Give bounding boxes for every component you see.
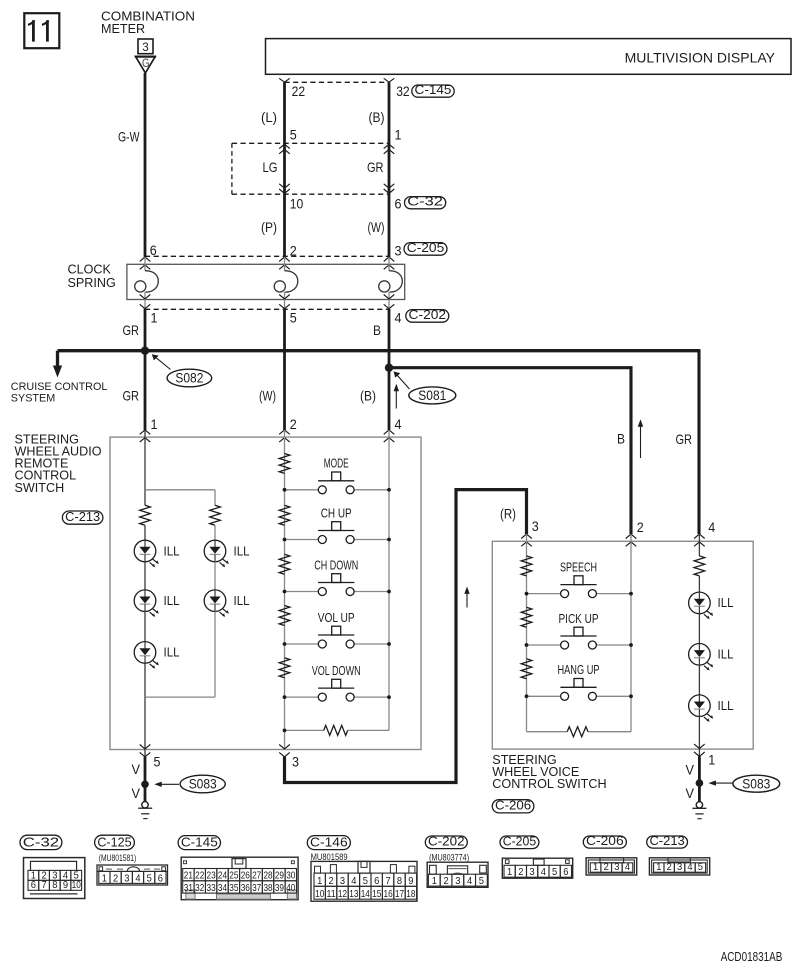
svg-text:4: 4 — [541, 867, 546, 878]
label GR upper — [367, 159, 384, 175]
wire stub out of clock spring 1 — [144, 292, 146, 309]
svg-text:11: 11 — [327, 889, 336, 900]
svg-text:LG: LG — [263, 159, 278, 175]
connector marks at LG GR bottom — [279, 184, 394, 194]
svg-text:1: 1 — [593, 862, 598, 873]
label (P) — [261, 219, 277, 235]
direction arrow wire (R) — [464, 587, 469, 608]
wire stub into clock spring 2 — [284, 257, 286, 271]
svg-text:ILL: ILL — [234, 543, 250, 558]
wire right LED column c — [214, 612, 216, 698]
svg-text:C-213: C-213 — [65, 509, 100, 524]
svg-text:C-125: C-125 — [97, 834, 131, 849]
svg-text:C-206: C-206 — [495, 798, 531, 813]
wire voice LED chain d — [698, 717, 700, 757]
svg-text:23: 23 — [207, 871, 216, 882]
label ILL right2 — [234, 593, 250, 608]
svg-text:ILL: ILL — [164, 645, 180, 660]
wire audio switch rail pin4 — [388, 430, 390, 730]
svg-text:26: 26 — [241, 871, 250, 882]
svg-text:METER: METER — [101, 22, 145, 36]
svg-text:CH UP: CH UP — [321, 506, 352, 520]
connector pinout C-146 — [311, 861, 417, 901]
label MODE — [324, 457, 349, 471]
bus wire S082 to cruise control and voice switch GR — [58, 349, 700, 534]
svg-text:6: 6 — [158, 873, 163, 884]
svg-text:33: 33 — [207, 883, 216, 894]
svg-text:32: 32 — [195, 883, 204, 894]
label MU801589 — [311, 852, 348, 862]
label (B) lower — [360, 388, 376, 404]
wire stub out of clock spring 3 — [388, 292, 390, 309]
ground voice switch — [692, 802, 706, 819]
label CLOCK SPRING — [68, 263, 116, 291]
svg-text:5: 5 — [290, 126, 297, 142]
svg-text:CH DOWN: CH DOWN — [314, 558, 358, 572]
label LG — [263, 159, 278, 175]
resistor voice illumination — [694, 556, 705, 576]
connector marks at LG GR top — [279, 144, 394, 154]
wire left LED chain b — [144, 562, 146, 590]
dashed connector line C-205 — [145, 255, 389, 257]
svg-text:5: 5 — [154, 753, 161, 769]
svg-text:GR: GR — [367, 159, 384, 175]
svg-text:30: 30 — [286, 871, 295, 882]
label 10 — [290, 196, 304, 212]
svg-text:(MU803774): (MU803774) — [429, 852, 469, 862]
connector label C-145 top — [412, 82, 454, 97]
document number ACD01831AB — [721, 950, 783, 964]
svg-text:HANG UP: HANG UP — [558, 663, 600, 677]
svg-text:3: 3 — [395, 243, 402, 259]
label pin1 voice — [708, 752, 715, 768]
svg-text:MODE: MODE — [324, 457, 349, 471]
label V upper voice — [686, 762, 695, 778]
switch MODE — [285, 472, 390, 494]
svg-text:(W): (W) — [368, 219, 385, 235]
LED ILL left 1 — [134, 540, 159, 567]
svg-text:ILL: ILL — [234, 593, 250, 608]
label ILL left3 — [164, 645, 180, 660]
junction dots MODE — [283, 488, 391, 492]
LED ILL left 3 — [134, 642, 159, 669]
wire audio pin1 chain top — [144, 430, 146, 505]
label 1 C-202 — [151, 309, 158, 325]
svg-text:C-202: C-202 — [409, 307, 447, 322]
svg-text:3: 3 — [532, 518, 539, 534]
svg-text:3: 3 — [614, 862, 619, 873]
svg-text:1: 1 — [708, 752, 715, 768]
block clock spring box — [127, 264, 405, 299]
resistor audio bottom — [285, 725, 390, 735]
arrow to cruise control system — [53, 366, 62, 378]
wire LED columns join — [145, 696, 215, 698]
svg-text:18: 18 — [406, 889, 415, 900]
LED ILL voice 1 — [689, 592, 714, 619]
svg-text:(R): (R) — [500, 505, 516, 521]
switch VOL UP — [285, 626, 390, 648]
svg-text:GR: GR — [123, 322, 140, 338]
svg-text:2: 2 — [518, 867, 523, 878]
svg-text:1: 1 — [432, 876, 437, 887]
svg-text:12: 12 — [338, 889, 347, 900]
label PICK UP — [559, 612, 599, 626]
svg-text:C-145: C-145 — [415, 82, 452, 97]
switch HANG UP — [527, 679, 632, 701]
label 6 C-32 — [395, 196, 402, 212]
label GR bus — [676, 431, 693, 447]
svg-text:8: 8 — [397, 876, 402, 887]
svg-text:4: 4 — [395, 416, 402, 432]
junction dot audio bottom resistor — [283, 729, 287, 733]
label V lower audio — [132, 785, 141, 801]
svg-text:25: 25 — [229, 871, 238, 882]
label CH UP — [321, 506, 352, 520]
svg-text:5: 5 — [363, 876, 368, 887]
svg-text:(B): (B) — [360, 388, 376, 404]
svg-text:2: 2 — [113, 873, 118, 884]
connector box 3 — [138, 39, 153, 54]
svg-text:B: B — [373, 322, 381, 338]
LED ILL left 2 — [134, 590, 159, 617]
svg-text:3: 3 — [340, 876, 345, 887]
LED ILL voice 2 — [689, 644, 714, 671]
svg-text:7: 7 — [386, 876, 391, 887]
junction dots CH UP — [283, 538, 391, 542]
svg-text:2: 2 — [329, 876, 334, 887]
label pin1 audio — [151, 416, 158, 432]
svg-text:6: 6 — [374, 876, 379, 887]
svg-text:V: V — [132, 785, 141, 801]
svg-text:1: 1 — [102, 873, 107, 884]
label HANG UP — [558, 663, 600, 677]
svg-text:3: 3 — [124, 873, 129, 884]
svg-text:3: 3 — [142, 40, 149, 54]
svg-text:5: 5 — [290, 309, 297, 325]
connector label C-202 bottom — [425, 833, 467, 848]
svg-text:40: 40 — [286, 883, 295, 894]
svg-text:(W): (W) — [259, 388, 276, 404]
wire voice pin3 chain — [526, 534, 528, 732]
svg-text:ILL: ILL — [164, 543, 180, 558]
connector marks voice box pin3 — [521, 534, 532, 546]
connector marks audio box pin2 — [279, 430, 290, 442]
svg-text:4: 4 — [467, 876, 472, 887]
svg-text:MULTIVISION DISPLAY: MULTIVISION DISPLAY — [625, 49, 776, 65]
svg-text:6: 6 — [395, 196, 402, 212]
svg-text:4: 4 — [395, 309, 402, 325]
svg-text:2: 2 — [637, 519, 644, 535]
ground audio switch — [138, 802, 152, 819]
svg-text:10: 10 — [72, 880, 81, 891]
svg-text:3: 3 — [455, 876, 460, 887]
svg-text:5: 5 — [147, 873, 152, 884]
wire voice LED chain c — [698, 665, 700, 695]
label ILL right1 — [234, 543, 250, 558]
svg-text:27: 27 — [252, 871, 261, 882]
svg-text:38: 38 — [263, 883, 272, 894]
wire voice LED chain b — [698, 614, 700, 644]
svg-text:8: 8 — [52, 880, 57, 891]
label pin3 voice — [532, 518, 539, 534]
svg-text:S083: S083 — [189, 777, 217, 792]
label ILL voice3 — [718, 698, 734, 713]
resistor audio chain R5 — [279, 658, 290, 678]
junction dots CH DOWN — [283, 590, 391, 594]
svg-text:6: 6 — [563, 867, 568, 878]
label 32 — [396, 83, 410, 99]
S083 callout audio — [154, 775, 225, 793]
wire (L) pin22 to clock spring — [283, 82, 286, 257]
direction arrow bus B — [638, 419, 643, 458]
svg-text:1: 1 — [317, 876, 322, 887]
resistor voice chain R3 — [521, 659, 532, 679]
svg-text:36: 36 — [241, 883, 250, 894]
svg-text:3: 3 — [530, 867, 535, 878]
junction dots VOL UP — [283, 642, 391, 646]
clock spring coil 1 — [135, 271, 159, 292]
connector marks audio box pin1 — [140, 430, 151, 442]
svg-text:35: 35 — [229, 883, 238, 894]
wire voice pin1 to ground — [698, 756, 701, 801]
label 5 C-202 — [290, 309, 297, 325]
svg-text:2: 2 — [667, 862, 672, 873]
label V lower voice — [686, 785, 695, 801]
page number box 11 — [24, 13, 59, 48]
label ILL left1 — [164, 543, 180, 558]
label pin2 audio — [290, 416, 297, 432]
svg-text:SWITCH: SWITCH — [15, 481, 65, 495]
wire right LED column b — [214, 562, 216, 590]
connector pinout C-145 — [181, 857, 298, 900]
svg-text:ILL: ILL — [718, 595, 734, 610]
resistor audio chain R2 — [279, 505, 290, 525]
svg-text:(B): (B) — [369, 109, 385, 125]
connector label C-213 box — [62, 509, 103, 524]
svg-text:(P): (P) — [261, 219, 277, 235]
svg-text:32: 32 — [396, 83, 410, 99]
svg-text:28: 28 — [263, 871, 272, 882]
junction dots PICK UP — [525, 643, 633, 647]
junction S082 — [141, 347, 149, 355]
svg-text:39: 39 — [275, 883, 284, 894]
connector marks below C-202 line — [140, 304, 395, 308]
svg-text:17: 17 — [395, 889, 404, 900]
svg-text:(MU801581): (MU801581) — [99, 853, 137, 863]
resistor audio chain R3 — [279, 554, 290, 574]
junction S083 voice — [696, 779, 704, 787]
svg-text:4: 4 — [351, 876, 356, 887]
connector label C-146 bottom — [307, 834, 350, 849]
label V upper audio — [132, 761, 141, 777]
junction S081 — [385, 364, 393, 372]
svg-text:(L): (L) — [261, 109, 277, 125]
svg-text:7: 7 — [41, 880, 46, 891]
svg-text:31: 31 — [184, 883, 193, 894]
LED ILL right 1 — [204, 540, 229, 567]
label 4 C-202 — [395, 309, 402, 325]
label 22 — [292, 83, 306, 99]
svg-text:29: 29 — [275, 871, 284, 882]
svg-text:SYSTEM: SYSTEM — [11, 392, 55, 404]
connector pinout C-206 — [586, 858, 637, 875]
connector marks audio box pin5 bottom — [140, 745, 151, 757]
junction S083 audio — [141, 781, 149, 789]
wire audio pin2 chain — [284, 430, 286, 750]
wire audio pin5 to ground — [144, 757, 147, 802]
label B wire3 — [373, 322, 381, 338]
svg-text:2: 2 — [290, 416, 297, 432]
svg-text:VOL DOWN: VOL DOWN — [312, 664, 361, 678]
label CH DOWN — [314, 558, 358, 572]
label (B) upper — [369, 109, 385, 125]
svg-text:CONTROL SWITCH: CONTROL SWITCH — [492, 777, 606, 791]
svg-text:V: V — [686, 762, 695, 778]
svg-text:1: 1 — [151, 416, 158, 432]
svg-text:10: 10 — [315, 889, 324, 900]
label 3 C-205 — [395, 243, 402, 259]
svg-text:2: 2 — [604, 862, 609, 873]
svg-text:24: 24 — [218, 871, 227, 882]
svg-text:16: 16 — [384, 889, 393, 900]
connector mark C-145 pin 32 — [384, 78, 395, 82]
connector marks below clock spring top — [140, 265, 395, 269]
svg-text:ILL: ILL — [718, 647, 734, 662]
svg-text:SPEECH: SPEECH — [560, 560, 597, 574]
wire left LED chain c — [144, 612, 146, 642]
svg-text:CRUISE CONTROL: CRUISE CONTROL — [11, 381, 108, 393]
label GR lower wire1 — [123, 388, 140, 404]
S083 callout voice — [709, 775, 780, 792]
svg-text:2: 2 — [443, 876, 448, 887]
svg-text:1: 1 — [151, 309, 158, 325]
wire stub out of clock spring 2 — [284, 292, 286, 309]
svg-text:1: 1 — [507, 867, 512, 878]
svg-text:21: 21 — [184, 871, 193, 882]
clock spring coil 3 — [379, 271, 403, 292]
svg-text:5: 5 — [698, 862, 703, 873]
label pin3 audio — [292, 753, 299, 769]
label pin2 voice — [637, 519, 644, 535]
svg-text:GR: GR — [676, 431, 693, 447]
junction dots SPEECH — [525, 592, 633, 596]
switch CH DOWN — [285, 574, 390, 596]
wire (B) pin32 to clock spring — [388, 82, 391, 257]
wire stub into clock spring 3 — [388, 257, 390, 271]
clock spring coil 2 — [274, 271, 298, 292]
svg-text:4: 4 — [135, 873, 140, 884]
svg-text:15: 15 — [372, 889, 381, 900]
svg-text:4: 4 — [708, 519, 715, 535]
S082 callout — [152, 354, 212, 387]
svg-text:CLOCK: CLOCK — [68, 263, 112, 277]
resistor illumination left — [140, 505, 151, 525]
label pin 6 clock spring — [150, 242, 157, 258]
svg-text:V: V — [132, 761, 141, 777]
connector marks voice box pin1 — [694, 744, 705, 756]
connector label C-125 bottom — [95, 834, 135, 849]
connector pinout C-213 — [649, 858, 709, 875]
svg-text:10: 10 — [290, 196, 304, 212]
connector label C-213 bottom — [647, 833, 688, 848]
svg-text:C-145: C-145 — [181, 834, 218, 849]
connector mark C-145 pin 22 — [279, 78, 290, 82]
resistor illumination right — [210, 505, 221, 525]
LED ILL voice 3 — [689, 695, 714, 722]
svg-text:S081: S081 — [418, 388, 446, 403]
connector label C-32 bottom — [20, 834, 62, 849]
svg-text:22: 22 — [195, 871, 204, 882]
block MULTIVISION DISPLAY — [266, 39, 792, 75]
svg-text:C-202: C-202 — [428, 833, 465, 848]
svg-text:GR: GR — [123, 388, 140, 404]
connector label C-205 top — [404, 240, 447, 255]
block voice switch box — [492, 541, 753, 749]
wire G-W combination meter to clock spring — [144, 73, 147, 257]
svg-text:ACD01831AB: ACD01831AB — [721, 950, 783, 964]
svg-text:4: 4 — [625, 862, 630, 873]
svg-text:1: 1 — [656, 862, 661, 873]
connector label C-145 bottom — [178, 834, 220, 849]
wire (R) audio pin3 to voice switch — [285, 490, 527, 783]
label G-W — [118, 129, 140, 145]
connector pinout C-202 — [427, 862, 488, 887]
label ILL left2 — [164, 593, 180, 608]
svg-text:22: 22 — [292, 83, 306, 99]
svg-text:3: 3 — [677, 862, 682, 873]
label B bus — [617, 431, 625, 447]
wire right LED column a — [214, 525, 216, 540]
connector label C-206 box — [492, 798, 534, 813]
wire audio pin5 chain bottom — [144, 697, 146, 756]
label (W) lower — [259, 388, 276, 404]
direction arrow wire (B) — [394, 384, 399, 409]
wire voice LED chain a — [698, 576, 700, 592]
svg-text:C-146: C-146 — [310, 834, 348, 849]
resistor voice chain R1 — [521, 556, 532, 576]
svg-text:S083: S083 — [742, 776, 770, 791]
label SPEECH — [560, 560, 597, 574]
label ILL voice1 — [718, 595, 734, 610]
switch SPEECH — [527, 576, 632, 598]
dashed connector line C-202 — [145, 308, 389, 310]
svg-text:5: 5 — [479, 876, 484, 887]
label CRUISE CONTROL SYSTEM — [11, 381, 108, 404]
label GR wire1 — [123, 322, 140, 338]
label 5 — [290, 126, 297, 142]
S081 callout — [394, 371, 456, 404]
label pin4 audio — [395, 416, 402, 432]
wire left LED chain a — [144, 525, 146, 540]
connector label C-205 bottom — [500, 833, 539, 848]
dashed connector line C-145 — [285, 81, 390, 83]
wire stub into clock spring 1 — [144, 257, 146, 271]
svg-text:C-205: C-205 — [407, 240, 445, 255]
junction dots VOL DOWN — [283, 695, 391, 699]
connector pinout C-125 — [97, 865, 168, 885]
connector label C-206 bottom — [583, 833, 626, 848]
label 2 upper — [290, 243, 297, 259]
wire voice pin4 chain top — [698, 534, 700, 556]
label MU803774 — [429, 852, 469, 862]
connector marks voice box pin4 — [694, 534, 705, 546]
block audio switch box — [110, 437, 421, 749]
wire (B) clock spring to audio switch pin4 — [388, 309, 391, 430]
wire GR clock spring to audio switch pin1 — [144, 309, 147, 430]
svg-text:9: 9 — [408, 876, 413, 887]
svg-text:1: 1 — [395, 126, 402, 142]
label (R) — [500, 505, 516, 521]
